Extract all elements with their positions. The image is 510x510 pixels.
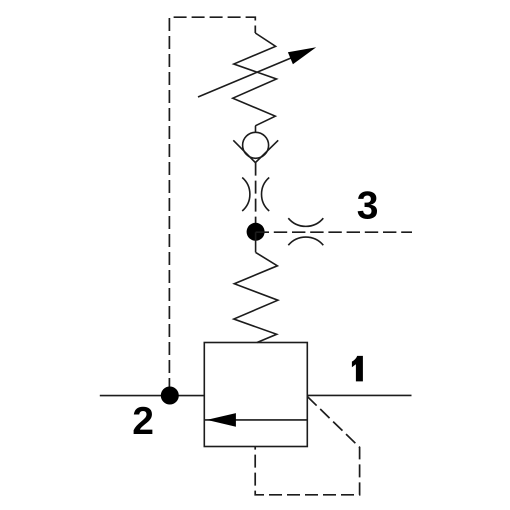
orifice O2 horizontal bottom arc bbox=[288, 237, 323, 245]
orifice O1 vertical left arc bbox=[242, 178, 250, 212]
check valve seat bbox=[233, 140, 278, 162]
node B junction dot port 2 bbox=[161, 387, 179, 405]
wire stub node A down bbox=[255, 232, 257, 252]
arrow line inside box bbox=[204, 419, 307, 421]
orifice O2 horizontal top arc bbox=[288, 218, 323, 226]
check valve ball CV1 bbox=[243, 132, 269, 158]
arrowhead adjustment bbox=[288, 47, 316, 64]
valve body box bbox=[204, 343, 307, 447]
arrow adjustment diagonal bbox=[198, 58, 291, 97]
orifice O1 vertical right arc bbox=[262, 178, 270, 212]
spring S1 adjustable top bbox=[233, 33, 277, 126]
spring S2 lower bbox=[234, 252, 278, 342]
node A junction dot bbox=[247, 223, 265, 241]
wire dashed horizontal to port 3 bbox=[256, 231, 412, 233]
wire port 2 bbox=[100, 395, 205, 397]
wire pilot dashed loop top-left bbox=[169, 17, 255, 391]
wire dashed vertical check valve to node A bbox=[255, 163, 257, 233]
wire port 1 bbox=[307, 394, 411, 396]
arrowhead inside box pointing left bbox=[207, 413, 236, 427]
label port 1 bbox=[352, 356, 363, 382]
svg-text:2: 2 bbox=[132, 400, 154, 443]
svg-text:3: 3 bbox=[357, 184, 379, 227]
wire pilot dashed from port 1 to box bottom bbox=[255, 397, 359, 495]
wire stub spring to check valve bbox=[255, 126, 257, 133]
